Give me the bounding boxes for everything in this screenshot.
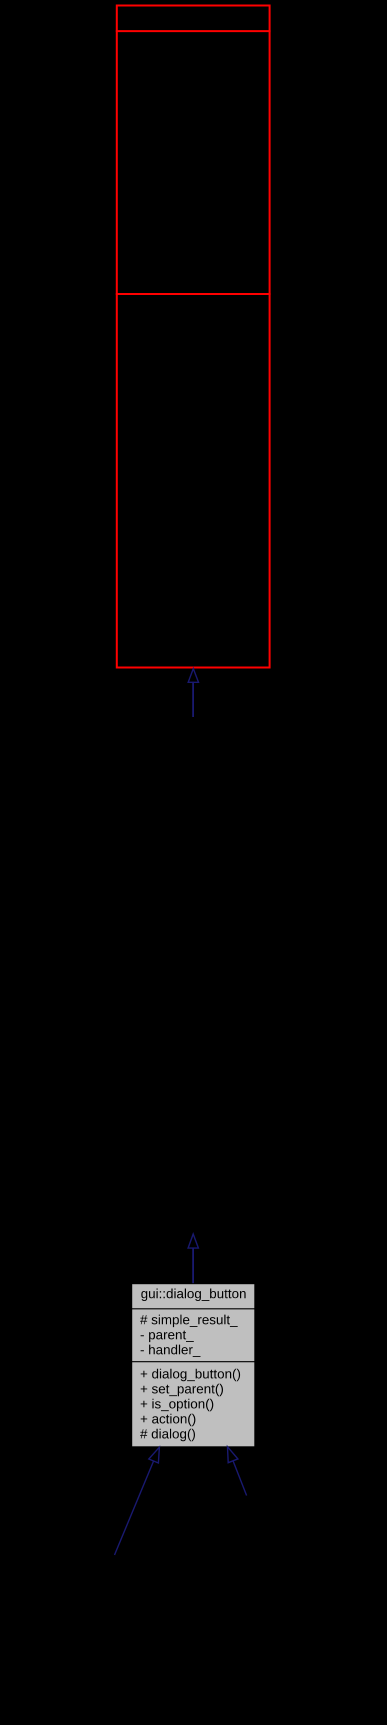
inheritance arrowhead (to red base class) bbox=[188, 669, 198, 683]
title label gui::dialog_button bbox=[141, 1289, 245, 1302]
attribute label - handler_ bbox=[141, 1345, 201, 1357]
method label + is_option() bbox=[141, 1399, 214, 1412]
inheritance arrowhead (lower-left derived) bbox=[149, 1447, 160, 1463]
method label + dialog_button() bbox=[141, 1369, 240, 1382]
attribute label - parent_ bbox=[141, 1331, 194, 1343]
class box gui::dialog_button (grey record fill) bbox=[132, 1284, 255, 1447]
inheritance arrow line (hidden derived class lower-left to gui::dialog_button) bbox=[115, 1461, 154, 1555]
base class box (red, truncated inheritance) bbox=[117, 6, 270, 668]
class box gui::dialog_button border bbox=[132, 1284, 255, 1447]
method label # dialog() bbox=[140, 1429, 195, 1442]
inheritance arrow line (hidden derived class lower-right to gui::dialog_button) bbox=[233, 1461, 247, 1496]
method label + action() bbox=[141, 1414, 196, 1427]
inheritance arrowhead (lower-right derived) bbox=[228, 1447, 238, 1463]
gui::dialog_button title divider bbox=[132, 1308, 255, 1310]
base class box attribute/method divider bbox=[116, 293, 271, 295]
inheritance arrow stem (hidden middle class to red base class) bbox=[192, 682, 194, 717]
base class box title divider bbox=[116, 30, 271, 32]
method label + set_parent() bbox=[141, 1384, 223, 1397]
attribute label # simple_result_ bbox=[140, 1315, 238, 1328]
gui::dialog_button attribute/method divider bbox=[132, 1361, 255, 1363]
inheritance arrow stem (gui::dialog_button to hidden middle class) bbox=[192, 1248, 194, 1284]
inheritance arrowhead (to hidden middle class) bbox=[188, 1234, 198, 1248]
